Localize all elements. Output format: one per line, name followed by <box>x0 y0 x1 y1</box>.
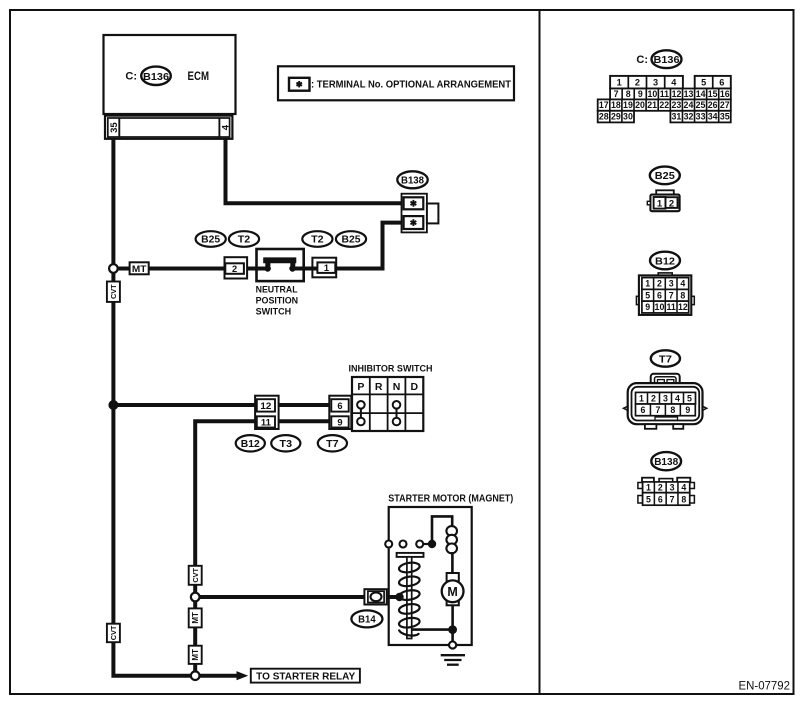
connector label T2 (right) <box>302 231 332 247</box>
wire pin11 to inhibitor pin9 <box>278 419 332 423</box>
wire splice2 to neutral switch <box>247 267 256 271</box>
svg-text:2: 2 <box>651 393 656 403</box>
MT tag on right rail (upper) <box>189 608 202 627</box>
connector B138 pin * (upper) <box>404 197 424 209</box>
svg-text:B25: B25 <box>655 170 675 182</box>
ECM box <box>104 35 236 114</box>
wire coil node up and over to coil <box>432 516 452 544</box>
svg-text:B12: B12 <box>655 255 675 267</box>
svg-text:D: D <box>411 381 419 393</box>
svg-text:14: 14 <box>696 89 706 99</box>
return spring <box>398 561 420 573</box>
pinout B25 label <box>650 167 680 185</box>
svg-text:6: 6 <box>641 405 646 415</box>
svg-text:INHIBITOR SWITCH: INHIBITOR SWITCH <box>349 364 433 374</box>
svg-text:6: 6 <box>657 290 662 300</box>
svg-text:EN-07792: EN-07792 <box>739 681 791 693</box>
svg-text:16: 16 <box>720 89 730 99</box>
pinout T7 connector <box>651 374 680 386</box>
svg-text:R: R <box>375 381 383 393</box>
ground symbol <box>441 654 465 656</box>
svg-text:5: 5 <box>646 495 651 505</box>
svg-text:1: 1 <box>617 77 622 87</box>
svg-text:11: 11 <box>660 89 669 99</box>
svg-text:35: 35 <box>720 112 730 122</box>
svg-text:7: 7 <box>655 405 660 415</box>
svg-text:3: 3 <box>653 77 658 87</box>
svg-text:22: 22 <box>659 100 669 110</box>
svg-text:6: 6 <box>337 401 342 411</box>
inhibitor pin 12 box <box>257 399 275 411</box>
inhibitor pin 9 box <box>331 416 348 427</box>
svg-text:1: 1 <box>646 482 651 492</box>
B14 splice dot <box>395 593 403 601</box>
svg-text:T7: T7 <box>326 439 339 450</box>
svg-text:3: 3 <box>669 279 674 289</box>
svg-text:B25: B25 <box>201 235 221 246</box>
svg-text:MT: MT <box>191 649 200 661</box>
svg-text:4: 4 <box>671 77 677 87</box>
svg-text:3: 3 <box>663 393 668 403</box>
pinout B138 connector <box>642 478 654 483</box>
svg-text:27: 27 <box>720 100 730 110</box>
pinout C: B136 grid <box>610 76 683 89</box>
solenoid contact 3 <box>416 541 423 548</box>
svg-text:9: 9 <box>638 89 643 99</box>
svg-text:4: 4 <box>675 393 680 403</box>
svg-text:1: 1 <box>639 393 644 403</box>
svg-text:12: 12 <box>678 302 688 312</box>
inhibitor connector 12/11 shell <box>255 396 279 429</box>
svg-text:26: 26 <box>708 100 718 110</box>
plunger shaft <box>407 557 412 639</box>
connector label T7 <box>318 435 347 451</box>
wire right rail MT to bottom circle <box>193 664 197 676</box>
svg-text:7: 7 <box>614 89 619 99</box>
inhibitor pin 6 box <box>331 399 348 411</box>
svg-text:2: 2 <box>657 279 662 289</box>
CVT tag on right rail <box>189 566 202 585</box>
svg-text:M: M <box>447 585 457 599</box>
svg-text:2: 2 <box>669 198 674 209</box>
svg-text:24: 24 <box>684 100 694 110</box>
wire bottom line to starter relay arrow <box>195 674 238 678</box>
svg-text:8: 8 <box>670 405 675 415</box>
svg-text:12: 12 <box>672 89 682 99</box>
inhibitor N column contacts <box>396 405 398 422</box>
wire pin11 to right rail corner <box>195 421 257 566</box>
to starter relay box <box>251 669 360 683</box>
junction circle (B14 branch) <box>191 593 200 602</box>
terminal 1 pin box <box>317 262 335 273</box>
connector label B12 <box>236 435 265 451</box>
svg-text:8: 8 <box>626 89 631 99</box>
svg-text:STARTER MOTOR (MAGNET): STARTER MOTOR (MAGNET) <box>388 494 513 505</box>
connector B138 body <box>402 194 427 233</box>
starter relay arrow <box>237 671 249 680</box>
svg-text:C:: C: <box>125 71 137 83</box>
svg-text:7: 7 <box>670 495 675 505</box>
svg-text:19: 19 <box>623 100 633 110</box>
svg-text:8: 8 <box>680 290 685 300</box>
junction node (inhibitor branch) <box>108 400 118 410</box>
svg-text:B25: B25 <box>342 235 362 246</box>
plunger T bar <box>397 553 424 557</box>
inhibitor P column contacts <box>360 405 362 422</box>
svg-text:10: 10 <box>655 302 665 312</box>
connector B138 side tab <box>427 204 439 224</box>
solenoid coil node <box>428 540 436 548</box>
svg-text:MT: MT <box>191 612 200 624</box>
svg-text:T7: T7 <box>659 353 672 365</box>
svg-text:11: 11 <box>666 302 675 312</box>
svg-text:32: 32 <box>684 112 694 122</box>
wire B138 lower pin to neutral switch pin1 <box>336 223 403 269</box>
svg-text:10: 10 <box>647 89 657 99</box>
svg-text:: TERMINAL No. OPTIONAL ARRANG: : TERMINAL No. OPTIONAL ARRANGEMENT <box>311 79 512 91</box>
svg-text:23: 23 <box>671 100 681 110</box>
connector B14 terminal <box>371 592 382 601</box>
solenoid contact 1 <box>385 541 392 548</box>
wire left rail: inhibitor node to bottom corner <box>113 405 195 676</box>
svg-text:13: 13 <box>684 89 694 99</box>
wire motor to ground node <box>451 605 454 629</box>
wire ground node to case circle <box>451 630 454 641</box>
wire pin12 to inhibitor pin6 <box>278 403 332 407</box>
switch blade <box>263 257 296 266</box>
svg-text:21: 21 <box>647 100 657 110</box>
svg-text:12: 12 <box>260 401 271 411</box>
svg-text:B136: B136 <box>654 54 680 66</box>
svg-text:33: 33 <box>696 112 706 122</box>
starter motor M body <box>447 573 459 605</box>
svg-text:2: 2 <box>232 264 237 274</box>
pinout T7 label <box>651 350 680 366</box>
junction circle (MT/CVT split) <box>109 264 118 273</box>
svg-text:35: 35 <box>109 122 120 133</box>
svg-text:15: 15 <box>708 89 718 99</box>
legend asterisk symbol <box>289 78 310 91</box>
svg-text:17: 17 <box>599 100 609 110</box>
case ground contact circle <box>449 641 456 648</box>
svg-text:4: 4 <box>681 482 686 492</box>
wire junction to MT splice (neutral line left) <box>113 267 225 271</box>
svg-text:ECM: ECM <box>188 71 210 83</box>
svg-text:SWITCH: SWITCH <box>256 306 292 316</box>
svg-text:29: 29 <box>611 112 621 122</box>
svg-text:B136: B136 <box>143 71 169 83</box>
terminal 2 shell <box>225 257 248 278</box>
svg-text:1: 1 <box>645 279 650 289</box>
pinout B138 label <box>651 452 681 470</box>
svg-text:B14: B14 <box>358 615 376 626</box>
svg-text:TO STARTER RELAY: TO STARTER RELAY <box>256 672 355 683</box>
svg-text:20: 20 <box>635 100 645 110</box>
ECM terminal strip <box>105 116 232 139</box>
legend box <box>278 66 514 100</box>
svg-text:3: 3 <box>670 482 675 492</box>
svg-text:1: 1 <box>657 199 663 210</box>
MT tag on right rail (lower) <box>189 646 202 664</box>
ground node dot <box>448 625 457 634</box>
wire branch to starter motor B14 <box>195 595 399 599</box>
svg-text:9: 9 <box>337 418 342 428</box>
svg-text:N: N <box>393 381 401 393</box>
svg-text:5: 5 <box>645 290 650 300</box>
connector label B25 (left) <box>196 231 226 247</box>
svg-text:B138: B138 <box>654 456 678 468</box>
svg-text:T3: T3 <box>280 439 293 450</box>
svg-text:11: 11 <box>261 418 271 428</box>
svg-text:B138: B138 <box>401 176 425 187</box>
pinout B12 connector <box>658 273 672 276</box>
svg-text:5: 5 <box>687 393 692 403</box>
terminal 2 pin box <box>225 263 244 274</box>
svg-text:5: 5 <box>701 77 706 87</box>
wire ground node to plunger <box>411 628 453 631</box>
svg-text:18: 18 <box>611 100 621 110</box>
switch contact right <box>293 267 304 271</box>
connector B14 label <box>351 610 382 627</box>
svg-text:1: 1 <box>324 263 329 273</box>
wire ECM pin4 to B138 pin (top) <box>226 139 404 203</box>
pinout B25 body <box>656 190 674 195</box>
wire ECM pin35 to junction circle <box>111 139 115 269</box>
connector label B25 (right) <box>336 231 366 247</box>
solenoid contact 2 <box>400 541 407 548</box>
svg-text:34: 34 <box>708 112 718 122</box>
connector label T3 <box>271 435 300 451</box>
starter motor M circle <box>442 580 464 602</box>
svg-text:2: 2 <box>635 77 640 87</box>
svg-text:28: 28 <box>599 112 609 122</box>
solenoid pull-in coil <box>446 526 457 536</box>
neutral position switch box <box>257 249 304 281</box>
pinout B25 pin 1 <box>654 197 666 209</box>
CVT tag on left rail (upper) <box>107 282 120 302</box>
wire coil to motor <box>451 552 454 573</box>
terminal 1 shell <box>312 258 336 278</box>
svg-text:31: 31 <box>672 112 682 122</box>
svg-text:C:: C: <box>636 54 648 66</box>
svg-text:9: 9 <box>645 302 650 312</box>
svg-text:NEUTRAL: NEUTRAL <box>256 285 298 295</box>
switch contact left <box>257 267 268 271</box>
inhibitor pin 11 box <box>257 416 275 427</box>
ECM pin 35 cell <box>118 118 120 137</box>
svg-text:4: 4 <box>220 124 231 130</box>
connector B14 shell <box>364 589 386 604</box>
wire inhibitor node to connector pin12 <box>113 403 257 407</box>
svg-text:30: 30 <box>623 112 633 122</box>
pinout B25 pin 2 <box>666 197 678 208</box>
ECM pin 4 cell <box>218 118 220 137</box>
wire contact3 to coil node <box>423 543 428 545</box>
svg-text:T2: T2 <box>238 235 251 246</box>
svg-text:7: 7 <box>669 290 674 300</box>
svg-text:B12: B12 <box>241 439 261 450</box>
svg-text:6: 6 <box>719 77 724 87</box>
wire left rail: junction circle down to inhibitor node <box>111 269 115 406</box>
svg-text:4: 4 <box>680 279 685 289</box>
svg-text:MT: MT <box>132 263 147 274</box>
svg-text:CVT: CVT <box>109 625 118 640</box>
svg-text:P: P <box>357 381 364 393</box>
junction circle (bottom, starter relay line) <box>191 671 200 680</box>
svg-text:CVT: CVT <box>191 567 200 582</box>
svg-text:6: 6 <box>658 495 663 505</box>
svg-text:25: 25 <box>696 100 706 110</box>
svg-text:T2: T2 <box>311 235 324 246</box>
CVT tag on left rail (lower) <box>107 624 120 643</box>
svg-text:POSITION: POSITION <box>256 295 299 305</box>
MT tag on neutral line <box>130 262 149 274</box>
connector B138 label <box>397 171 427 188</box>
svg-text:2: 2 <box>658 482 663 492</box>
wire right rail CVT to MT section <box>193 585 197 646</box>
inhibitor connector 6/9 shell <box>329 396 351 429</box>
svg-text:8: 8 <box>681 495 686 505</box>
panel divider line <box>539 10 541 694</box>
inhibitor switch grid <box>352 377 423 431</box>
wire switch to splice1 <box>304 267 318 271</box>
connector label T2 (left) <box>229 231 259 247</box>
svg-text:9: 9 <box>685 405 690 415</box>
starter motor box <box>389 507 472 645</box>
connector B138 pin * (lower) <box>404 216 424 229</box>
svg-text:CVT: CVT <box>109 284 118 299</box>
pinout B12 label <box>650 252 680 270</box>
